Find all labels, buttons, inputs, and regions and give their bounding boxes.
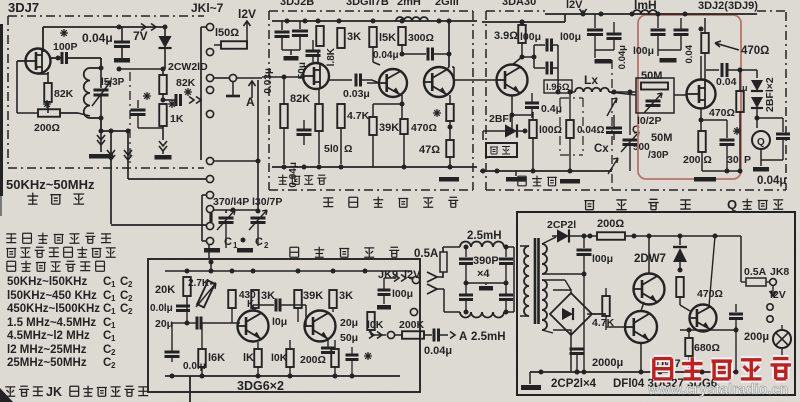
resistor 2.7K variable: [188, 278, 216, 307]
bridge corners: [552, 290, 554, 330]
capacitor 0.04u Q: [757, 118, 790, 160]
capacitor 100u ps: [577, 234, 614, 373]
wire gate loop: [17, 61, 37, 113]
capacitor 50u: [297, 40, 321, 79]
label 200ohm ps: [597, 218, 624, 230]
wire osc out to caps: [111, 179, 211, 241]
resistor 15K: [369, 27, 396, 65]
wire lamp bottom: [736, 360, 782, 372]
resistor 10K out: [367, 271, 384, 335]
capacitor 0.04u out: [424, 329, 506, 358]
inductor 1mH: [633, 10, 657, 14]
resistor 200ohm ps: [597, 232, 741, 240]
inductor 2.5mH bottom: [437, 289, 514, 318]
capacitor 0.01u a: [150, 303, 190, 314]
label 2BF1x2 vertical: [764, 77, 776, 112]
capacitor 0.04 output: [706, 63, 757, 93]
label 370/14P: [213, 196, 249, 208]
note line1 (oscillator has 7 units): [6, 233, 111, 244]
meter Q: [752, 128, 770, 149]
resistor 39K amp: [369, 102, 404, 168]
resistor 3K a: [337, 28, 361, 48]
wire LF rail up: [209, 260, 214, 272]
inductor 2.5mH top: [460, 242, 514, 313]
label difin zhendangqi (LF osc): [290, 247, 399, 258]
capacitor Cx fixed: [606, 115, 622, 140]
diode 2BF1: [483, 113, 528, 140]
supply rail right: [545, 12, 757, 17]
power ground bus: [530, 370, 739, 375]
resistor 200K: [399, 319, 432, 339]
transformer core: [535, 238, 539, 324]
label 390P x4: [473, 255, 499, 280]
resistor 200ohm lf: [300, 340, 339, 376]
watermark crystalradio url: [647, 382, 788, 398]
inductor Lx: [572, 73, 636, 95]
label 0.04u Q: [757, 175, 786, 187]
resistor star stage3: [446, 95, 454, 140]
divider ground rail: [480, 169, 612, 174]
amp ground rail: [272, 165, 477, 170]
label zhendangqi (oscillator): [27, 193, 84, 205]
test unit dash border right: [612, 60, 786, 190]
ground chevron divider: [155, 141, 172, 160]
capacitor coupling out: [161, 88, 202, 106]
dashed plugin box Lx: [560, 98, 583, 155]
LF bottom rail: [165, 374, 400, 379]
resistor 470ohm variable (test): [701, 18, 769, 80]
amplifier dash-dot border: [269, 11, 786, 190]
capacitor 0.04u stage1: [284, 120, 312, 188]
label JK1~7: [191, 1, 224, 15]
transistor V1 3DJ7 FET: [26, 49, 51, 74]
resistor 16K: [198, 323, 225, 376]
label 200ohm resistor: [34, 100, 60, 134]
wire 50M to FET gate: [674, 94, 687, 96]
zener 2DW7: [673, 236, 687, 273]
label 2CW21D: [168, 61, 208, 73]
capacitor 390P 2: [459, 283, 473, 315]
capacitor 0.04 rail b: [658, 18, 695, 64]
wire 2CW21 node: [117, 27, 166, 72]
transistor V8 3DG6: [305, 311, 336, 342]
capacitor 0.01u b: [165, 323, 206, 372]
inductor osc tank coil: [84, 68, 101, 118]
ground chevrons osc-2: [107, 131, 132, 224]
capacitor 0.4u: [525, 93, 562, 118]
wire C1C2 top: [214, 208, 258, 214]
wire 7V supply rail: [43, 25, 168, 50]
label kuanpindai fangdaqi (wideband amp): [323, 197, 458, 208]
wire V6 drain: [699, 27, 704, 81]
divider top rail: [482, 14, 565, 25]
net label A up-arrow: [246, 81, 256, 109]
scan edge left: [0, 24, 3, 216]
ground C2: [237, 238, 253, 253]
ground rail b: [660, 50, 677, 63]
wire source bottom: [38, 72, 48, 74]
resistor 470ohm amp: [400, 95, 441, 168]
capacitor star divider: [131, 92, 164, 128]
label 3DG6x2: [190, 376, 284, 402]
watermark kuangshi shouyinji (red): [654, 357, 791, 380]
transistor V10 regulator: [621, 311, 657, 343]
power box: [517, 212, 795, 395]
capacitor 390P 1: [459, 245, 473, 284]
label 2.5mH top: [467, 230, 502, 242]
resistor 3K c: [329, 271, 353, 312]
label 2DW7: [634, 253, 666, 265]
wire drain top: [42, 49, 44, 52]
wire V11 collector: [709, 236, 715, 307]
transistor V6 3DJ2 FET: [687, 80, 716, 109]
wire filter top: [437, 247, 460, 277]
zener diode 2CW21D: [158, 27, 171, 69]
diode 2CP21: [552, 229, 597, 242]
power ground: [521, 372, 541, 390]
wire tank to ground: [101, 129, 131, 134]
resistor 1K lf: [243, 342, 262, 376]
label 1mH: [634, 0, 657, 12]
resistor 10K lf: [271, 340, 294, 376]
label 2CP21: [547, 219, 576, 231]
label 3DJ7: [8, 0, 39, 15]
label 12V right: [566, 0, 587, 14]
resistor 39K: [294, 290, 323, 322]
capacitor 100u jk: [377, 278, 413, 310]
capacitor 10u coupling: [253, 299, 306, 329]
capacitor 20u lf: [333, 308, 358, 329]
capacitor 0.04u rail a: [595, 14, 628, 69]
divider bottom dash border: [486, 189, 612, 191]
label 500/30P: [633, 142, 669, 161]
wire jack to C row: [208, 245, 210, 258]
label 12V ps: [764, 286, 786, 301]
capacitor 50u lf: [321, 332, 358, 360]
variable slash lower: [608, 158, 618, 174]
label ceshi huilu (test circuit): [584, 199, 690, 209]
label section 50KHz-50MHz: [6, 177, 95, 192]
jack contacts column: [206, 23, 213, 244]
wire lf out arrows: [369, 331, 402, 338]
label Q zhi zhishi (Q value indicator): [727, 197, 783, 212]
wire Q to ground: [753, 149, 769, 172]
label 50M lower: [651, 132, 672, 144]
wire emitter to Lx: [512, 90, 561, 116]
capacitor 100u loop: [520, 31, 559, 92]
resistor 3K b: [251, 271, 275, 312]
parallel RC 50M box: [636, 70, 674, 127]
transistor V3 stage2: [367, 69, 407, 97]
capacitor star lf: [346, 347, 373, 376]
transistor V9 regulator: [634, 236, 665, 305]
terminal A with ground: [214, 74, 262, 96]
ground rail a: [595, 58, 612, 64]
capacitor 30P star: [701, 120, 751, 171]
frequency table: [7, 276, 133, 370]
resistor 200ohm test: [683, 131, 712, 171]
variable capacitor 15/3p: [92, 68, 125, 118]
label C1: [224, 236, 238, 250]
resistor 680ohm: [680, 326, 739, 372]
label JK9 12V: [378, 269, 421, 281]
resistor 20K: [155, 277, 191, 312]
label 0.04u: [82, 31, 113, 45]
label 0.5A fuse lf: [414, 247, 447, 278]
capacitor 390P 3: [499, 245, 513, 315]
capacitor 20u coupling: [155, 312, 240, 330]
wire Lx to 50M box: [609, 90, 636, 129]
wire V6 source: [699, 108, 704, 131]
LF top rail: [165, 269, 412, 274]
resistor 430K: [228, 271, 256, 323]
wire V5 base: [452, 67, 496, 80]
jack plugs: [427, 272, 437, 294]
jack JK8 contacts: [767, 304, 773, 322]
transistor V7 3DG6: [238, 311, 269, 342]
oscillator unit dash-dot border: [8, 16, 204, 168]
label DF104 3DG: [613, 378, 717, 390]
transistor V11 output: [680, 305, 717, 332]
fuse 0.5A JK8: [741, 236, 789, 286]
wire rail to jack: [201, 26, 206, 28]
resistor 510ohm: [315, 89, 352, 164]
arrows on 7V rail: [141, 24, 156, 31]
resistor 82K (divider): [159, 69, 195, 100]
boxed label 1.96ohm: [544, 80, 572, 93]
wire V5 emitter: [510, 95, 515, 131]
transformer secondary bottom: [542, 280, 571, 333]
transistor V5 3DA30: [497, 65, 528, 96]
LF osc box: [148, 259, 420, 392]
label 7V: [133, 29, 148, 43]
wire V5 collector: [512, 42, 522, 65]
ground amp: [439, 167, 459, 182]
note bottom (JK pushed position): [5, 385, 148, 399]
label dingwei tiaojie (positioning adj): [278, 175, 326, 185]
resistor 4.7K a: [337, 48, 369, 164]
transformer secondary top: [542, 237, 587, 277]
note line3: [7, 261, 105, 272]
variable slash upper: [607, 98, 617, 116]
capacitor 0.04u interstage: [373, 48, 452, 62]
note line2: [6, 247, 115, 258]
resistor 1K: [159, 100, 184, 140]
label 2CP21x4: [551, 378, 597, 390]
ground chevrons osc-1: [89, 131, 113, 159]
unit divider dash inside osc box: [129, 72, 131, 166]
resistor 470ohm test output: [709, 70, 744, 174]
resistor 470ohm drive: [676, 270, 723, 305]
capacitor 0.03u coupling: [343, 74, 379, 101]
label 12V with arrow: [238, 7, 256, 34]
capacitor 2000u: [570, 341, 624, 375]
transistor V4 stage3: [424, 19, 454, 98]
capacitor 100u rail b: [633, 14, 666, 57]
right dash-dot border: [785, 12, 787, 190]
resistor 82K amp: [280, 75, 310, 165]
resistor 300ohm: [398, 27, 434, 55]
wire tank bottom: [60, 113, 104, 134]
transistor V2 FET stage1: [262, 50, 329, 89]
jack JK9 contacts: [384, 275, 420, 316]
capacitor 100u rail a: [560, 14, 603, 58]
capacitor electrolytic pair: [282, 21, 308, 61]
ground C1: [204, 232, 220, 253]
lamp indicator: [756, 322, 791, 360]
bridge rectifier: [550, 290, 606, 372]
wire V10 emitter down: [640, 343, 642, 372]
label 130/7P: [252, 196, 282, 208]
label C: [632, 124, 640, 136]
capacitor 390P 4: [499, 283, 513, 312]
resistor 47ohm: [419, 140, 454, 168]
label dingwei box: [486, 143, 517, 157]
wire stage3 collector: [446, 67, 449, 70]
diodes 2BF1x2: [751, 70, 763, 128]
scan edge bottom-left corner: [0, 388, 13, 402]
variable capacitor C2: [214, 80, 267, 246]
resistor 4.7K ps: [587, 288, 615, 330]
label fenyaqi (divider): [518, 176, 557, 187]
resistor 1.8K: [316, 26, 337, 66]
resistor 100ohm divider: [529, 112, 562, 171]
variable capacitor C 500/30P: [614, 128, 639, 171]
wire V9-V10: [606, 288, 644, 327]
resistor 82K (osc): [44, 72, 73, 113]
labels top cut 3DJ2B 3DG117B 2mH 2G111 3DA30: [280, 0, 536, 8]
label Cx: [594, 143, 609, 155]
filter mid node: [464, 281, 509, 291]
wire fet1 to cap: [329, 79, 352, 81]
red test box: [638, 15, 741, 179]
test ground: [694, 169, 740, 182]
capacitor 0.04u bypass: [114, 27, 130, 63]
capacitor 0.03u input bypass: [263, 21, 290, 94]
capacitor 200u ps: [729, 236, 769, 372]
amp top rail: [272, 19, 477, 24]
resistor 3.9ohm: [494, 20, 526, 44]
capacitor 100P with star: [49, 29, 104, 71]
label 2DW7 b: [650, 358, 681, 370]
label 3DJ2(3DJ9): [698, 0, 758, 12]
variable capacitor C1: [217, 210, 235, 248]
label C2: [255, 236, 269, 250]
transformer primary: [520, 246, 529, 316]
resistor 0.04ohm: [566, 90, 604, 172]
resistor 150ohm: [214, 27, 247, 49]
inductor 2mH top: [396, 17, 428, 21]
ground divider: [506, 171, 580, 184]
